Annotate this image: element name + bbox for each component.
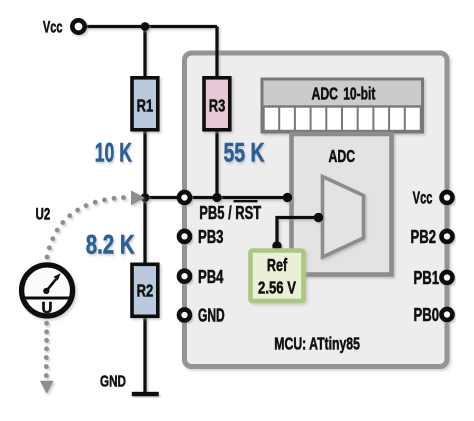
wire end dot at mux ref input [314, 213, 324, 223]
ADC block [292, 134, 392, 275]
wire node A to R2 top [143, 198, 146, 266]
mux trapezoid inside ADC [323, 177, 364, 258]
svg-text:GND: GND [100, 372, 126, 390]
svg-text:Vcc: Vcc [413, 188, 433, 208]
svg-text:2.56 V: 2.56 V [258, 278, 296, 297]
svg-text:Vcc: Vcc [43, 18, 63, 37]
wire Ref to mux input [277, 218, 318, 247]
wire R3 top branch [215, 27, 218, 80]
dotted measurement arc from node A toward meter [45, 195, 126, 259]
dotted measurement line below meter [44, 321, 49, 378]
svg-text:PB0: PB0 [414, 306, 440, 326]
voltmeter needle [43, 273, 60, 294]
junction node A (R1/R2/PB5) [141, 193, 150, 202]
ground symbol [132, 392, 159, 397]
junction node at Vcc/R1 [141, 22, 150, 31]
svg-text:U: U [42, 299, 53, 316]
wire R2 bottom to ground [143, 315, 146, 392]
pin PB5/RST circle [179, 192, 190, 203]
svg-text:PB1: PB1 [414, 269, 440, 289]
svg-text:ADC: ADC [311, 84, 338, 104]
pin Vcc circle right [442, 192, 453, 203]
arrowhead pointing down (to GND side) [40, 381, 54, 394]
svg-text:PB5 / RST: PB5 / RST [199, 204, 261, 224]
wire Vcc rail top [84, 27, 318, 393]
wire R1 branch down [143, 27, 146, 80]
pin GND circle [179, 310, 190, 321]
svg-text:Ref: Ref [267, 256, 288, 276]
pin PB4 circle [179, 271, 190, 282]
svg-text:R2: R2 [137, 282, 154, 302]
ADC result register (ADC 10-bit) [262, 79, 423, 132]
junction node R3/PB5 net [212, 193, 221, 202]
resistor R3 (internal pull-up) [204, 78, 230, 130]
svg-text:R3: R3 [209, 96, 226, 116]
MCU U1 body (ATtiny85) [185, 53, 448, 367]
svg-text:R1: R1 [137, 96, 154, 116]
svg-text:ADC: ADC [329, 147, 356, 167]
svg-text:U2: U2 [36, 205, 51, 224]
wire R3 bottom to PB5 net [215, 129, 218, 198]
Ref 2.56V block [251, 251, 304, 302]
svg-text:10-bit: 10-bit [343, 84, 375, 104]
voltmeter U2 symbol body [22, 265, 73, 316]
wire node A to PB5 pin and into ADC [145, 196, 287, 199]
pin PB2 circle [442, 231, 453, 242]
pin PB0 circle [442, 309, 453, 320]
Vcc terminal circle top-left [72, 20, 84, 32]
svg-text:PB4: PB4 [198, 268, 224, 288]
svg-text:10 K: 10 K [95, 137, 132, 168]
arrowhead at node A [131, 190, 145, 205]
svg-text:55 K: 55 K [224, 137, 265, 167]
resistor R2 [132, 264, 158, 316]
svg-text:GND: GND [198, 306, 225, 326]
wire end dot at ADC input [283, 193, 293, 203]
svg-text:MCU: ATtiny85: MCU: ATtiny85 [274, 334, 360, 354]
svg-text:PB2: PB2 [411, 228, 437, 248]
overline over RST [234, 200, 258, 202]
resistor R1 [132, 78, 158, 130]
wire R1 bottom to node A [143, 129, 146, 198]
pin PB1 circle [442, 272, 453, 283]
svg-text:PB3: PB3 [198, 228, 224, 248]
svg-text:8.2 K: 8.2 K [86, 230, 136, 260]
pin PB3 circle [179, 231, 190, 242]
wire end dot at Ref box top [272, 241, 282, 251]
